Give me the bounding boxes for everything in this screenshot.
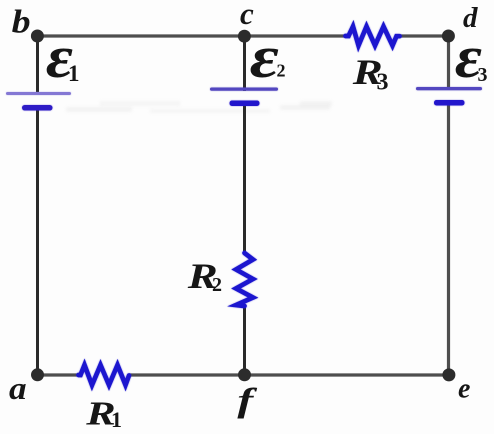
smudge near battery E3: [300, 101, 332, 106]
battery E1 negative plate: [22, 105, 53, 111]
wire battery E3 to e (right lower): [447, 103, 450, 375]
node e: [442, 368, 455, 381]
battery E2 positive plate: [210, 88, 278, 91]
resistor R2 zigzag: [236, 253, 253, 306]
battery E2 negative plate: [230, 101, 260, 107]
wire battery E2 to R2 (middle): [243, 104, 246, 254]
wire R1 to f (bottom middle): [129, 373, 245, 376]
battery E3 negative plate: [434, 100, 465, 106]
wire b to c (top left): [38, 34, 245, 37]
svg-text:e: e: [458, 374, 470, 405]
wire a to R1 (bottom left): [38, 373, 80, 376]
svg-text:3: 3: [377, 70, 389, 96]
svg-text:a: a: [9, 371, 27, 406]
wire c to battery E2 (middle upper): [243, 36, 246, 91]
smudge near battery E2: [100, 101, 330, 110]
node c: [238, 30, 251, 43]
battery E1 positive plate: [6, 92, 71, 95]
svg-text:b: b: [12, 3, 31, 40]
wire c to R3 (top middle): [245, 34, 347, 37]
wire f to e (bottom right): [245, 373, 449, 376]
node f: [238, 368, 251, 381]
resistor R1 zigzag: [79, 365, 130, 385]
battery E3 positive plate: [416, 87, 482, 90]
svg-text:1: 1: [68, 61, 80, 86]
svg-text:1: 1: [111, 407, 122, 432]
node a: [31, 368, 44, 381]
wire d to battery E3 (right upper): [447, 36, 450, 90]
smudge near battery E1: [66, 107, 270, 113]
svg-text:2: 2: [277, 61, 286, 81]
node b: [31, 30, 44, 43]
wire battery E1 to a (left lower): [36, 108, 39, 375]
resistor R3 zigzag: [346, 27, 400, 46]
svg-text:ε: ε: [250, 25, 279, 91]
wire R2 to f (middle lower): [243, 305, 246, 375]
node d: [442, 30, 455, 43]
wire R3 to d (top right): [399, 34, 449, 37]
svg-text:3: 3: [478, 64, 488, 86]
wire b to battery E1 (left upper): [36, 36, 39, 95]
svg-text:2: 2: [212, 274, 222, 296]
